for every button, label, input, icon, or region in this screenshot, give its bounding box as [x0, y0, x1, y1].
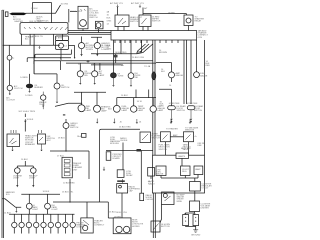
svg-text:LAMP: LAMP	[138, 109, 144, 112]
svg-text:SWITCH: SWITCH	[152, 21, 161, 23]
svg-text:GAUGE: GAUGE	[200, 74, 208, 77]
svg-text:14 BLK: 14 BLK	[4, 213, 11, 215]
svg-text:14 BRN: 14 BRN	[20, 77, 28, 79]
svg-text:1A 4=: 1A 4=	[77, 135, 83, 138]
svg-text:BLK: BLK	[161, 71, 166, 73]
svg-text:WIRE: WIRE	[177, 201, 183, 203]
svg-text:SENDER: SENDER	[34, 87, 43, 89]
svg-text:SWITCH: SWITCH	[159, 149, 168, 151]
svg-text:14 BRN: 14 BRN	[55, 38, 63, 40]
svg-text:14 BLK ORG: 14 BLK ORG	[70, 11, 83, 13]
svg-text:BLK 14 ORG: BLK 14 ORG	[30, 21, 43, 23]
svg-text:RED: RED	[206, 65, 211, 67]
svg-text:SWITCH: SWITCH	[130, 21, 139, 23]
svg-text:902 10 ALL TRKS: 902 10 ALL TRKS	[19, 110, 36, 113]
svg-text:ORS: ORS	[198, 37, 203, 39]
svg-text:SWITCH: SWITCH	[89, 17, 98, 19]
svg-text:BLK: BLK	[107, 46, 112, 48]
svg-text:SWITCH: SWITCH	[61, 87, 70, 89]
svg-text:ORG: ORG	[107, 49, 112, 51]
svg-text:BLK: BLK	[107, 18, 112, 20]
svg-text:SWITCH: SWITCH	[194, 110, 203, 112]
svg-text:BOARD: BOARD	[113, 157, 121, 160]
svg-text:A/T INST LTS: A/T INST LTS	[110, 2, 123, 5]
svg-text:REG: REG	[182, 171, 187, 173]
svg-text:RELAY: RELAY	[126, 174, 133, 177]
svg-text:SWITCH: SWITCH	[70, 127, 79, 129]
svg-text:UNIT: UNIT	[73, 169, 79, 171]
svg-text:BLK: BLK	[108, 108, 113, 110]
svg-text:BREAKER: BREAKER	[25, 143, 35, 146]
svg-text:5 VOLT: 5 VOLT	[202, 188, 210, 190]
svg-text:USE: USE	[197, 145, 202, 147]
svg-text:SWITCH: SWITCH	[177, 110, 186, 112]
svg-text:RADIO: RADIO	[148, 183, 155, 186]
svg-text:J4 BRN: J4 BRN	[114, 216, 122, 218]
svg-text:LIGHT: LIGHT	[29, 178, 36, 180]
svg-text:TEMP: TEMP	[39, 104, 45, 106]
svg-text:LAMP: LAMP	[195, 168, 201, 171]
svg-text:GROUND: GROUND	[191, 235, 201, 237]
svg-text:CLUTCH: CLUTCH	[6, 100, 15, 102]
svg-text:ORG: ORG	[107, 21, 112, 23]
svg-text:CLUTCH: CLUTCH	[14, 88, 23, 90]
svg-text:18 BLK: 18 BLK	[58, 138, 65, 140]
svg-text:16 BLK RED: 16 BLK RED	[119, 127, 131, 129]
svg-text:14 BRN: 14 BRN	[86, 49, 94, 51]
svg-text:AMP: AMP	[173, 134, 178, 137]
svg-text:16 BLK YEL: 16 BLK YEL	[62, 192, 74, 194]
svg-text:10 BLK: 10 BLK	[27, 119, 34, 121]
svg-text:16 BLK: 16 BLK	[21, 159, 28, 161]
svg-text:MODULE: MODULE	[110, 143, 120, 145]
svg-text:IND: IND	[135, 77, 139, 79]
svg-text:BUTTON: BUTTON	[161, 226, 170, 228]
svg-text:A/C: A/C	[25, 37, 29, 40]
svg-text:HORNS: HORNS	[132, 226, 140, 228]
svg-text:LAMP: LAMP	[122, 109, 128, 112]
svg-text:4A 16 BLK: 4A 16 BLK	[181, 147, 191, 150]
svg-text:LAMP: LAMP	[86, 109, 92, 112]
svg-text:TO HEATER: TO HEATER	[166, 128, 178, 131]
svg-text:CHOKE: CHOKE	[146, 199, 154, 201]
svg-text:16 BLK: 16 BLK	[31, 8, 38, 10]
svg-text:LAMPS: LAMPS	[178, 155, 186, 158]
svg-text:HEATER: HEATER	[15, 20, 24, 23]
svg-text:TO 4A: TO 4A	[144, 65, 151, 68]
svg-text:J4 BROWN: J4 BROWN	[169, 103, 180, 105]
svg-text:14 BRN TN: 14 BRN TN	[32, 36, 43, 38]
svg-text:16 BLK RED: 16 BLK RED	[115, 52, 127, 54]
svg-text:IND: IND	[84, 75, 88, 77]
svg-text:LIMITER: LIMITER	[201, 208, 210, 210]
svg-text:A/T INST LTS: A/T INST LTS	[131, 2, 144, 5]
svg-text:GAUGE: GAUGE	[176, 74, 184, 77]
svg-text:GAUGE: GAUGE	[156, 173, 164, 176]
svg-text:TURN: TURN	[118, 76, 124, 78]
svg-text:J4 BROWN: J4 BROWN	[187, 103, 198, 105]
svg-text:LAMP: LAMP	[158, 109, 164, 112]
svg-text:BROWN: BROWN	[159, 52, 167, 54]
svg-text:ACC: ACC	[47, 139, 52, 142]
svg-text:WINDOW: WINDOW	[185, 130, 194, 132]
svg-text:SWITCH: SWITCH	[152, 138, 161, 140]
svg-text:LAMP: LAMP	[99, 74, 105, 77]
svg-text:RED: RED	[160, 106, 165, 108]
svg-text:17 BLK: 17 BLK	[57, 156, 64, 158]
svg-text:LAMP: LAMP	[101, 110, 107, 113]
svg-text:CONNECT: CONNECT	[94, 225, 105, 227]
svg-text:16 RED: 16 RED	[168, 12, 176, 14]
svg-text:16 BLU: 16 BLU	[109, 212, 116, 214]
svg-text:CAP: CAP	[129, 190, 134, 193]
svg-text:16 BLK YEL: 16 BLK YEL	[116, 212, 128, 214]
svg-text:16 BLK: 16 BLK	[43, 191, 50, 193]
svg-text:16 BLK: 16 BLK	[121, 95, 128, 97]
svg-text:LIGHT: LIGHT	[52, 209, 59, 211]
svg-text:LIGHT: LIGHT	[13, 178, 20, 180]
svg-text:LIGHT: LIGHT	[32, 209, 39, 211]
svg-text:14 RED: 14 RED	[25, 95, 33, 97]
svg-text:CHOKE: CHOKE	[120, 140, 128, 142]
svg-text:LIGHTS: LIGHTS	[77, 227, 85, 229]
svg-text:16 BLK ORG: 16 BLK ORG	[132, 57, 145, 59]
svg-text:16 16: 16 16	[137, 101, 143, 103]
svg-text:10 BLK RED: 10 BLK RED	[63, 183, 75, 185]
svg-text:16 ORG: 16 ORG	[61, 4, 69, 6]
svg-text:RELAY: RELAY	[195, 20, 202, 23]
